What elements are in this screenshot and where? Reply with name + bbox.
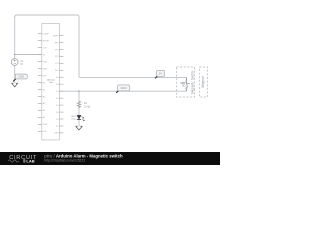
wire LED to ground — [78, 119, 80, 126]
wire V1 top vertical — [14, 16, 16, 59]
svg-text:GND: GND — [43, 61, 48, 63]
dashed enclosure Magnetic Switch — [177, 67, 195, 97]
LED LED1 — [71, 115, 84, 121]
watermark bar — [0, 152, 220, 165]
svg-text:LAB: LAB — [26, 159, 34, 164]
node junction at V1/U1 5V — [14, 54, 16, 56]
switch SW1 — [180, 77, 189, 91]
net flag GND at V1 — [13, 74, 27, 81]
wire V1 to IC pin — [15, 54, 42, 56]
svg-text:RESET: RESET — [43, 40, 50, 42]
svg-text:Magnet: Magnet — [201, 76, 205, 87]
voltage source V1 — [11, 59, 24, 66]
U1 right pins — [59, 36, 63, 133]
svg-text:IOREF: IOREF — [43, 33, 50, 35]
wire branch to R1 — [78, 91, 80, 101]
resistor R1 — [77, 101, 80, 108]
wire top rail horizontal — [15, 15, 79, 17]
svg-text:GND: GND — [43, 68, 48, 70]
U1 right pin labels — [53, 34, 59, 134]
svg-text:5V: 5V — [159, 72, 162, 76]
svg-text:http://circuitlab.com/c/z5223: http://circuitlab.com/c/z5223 — [44, 159, 85, 163]
net flag 5V on top rail — [155, 70, 164, 78]
svg-text:NO: NO — [182, 86, 186, 88]
wire right vertical down to switch rail — [78, 16, 80, 77]
svg-text:piiru / Arduino Alarm - Magnet: piiru / Arduino Alarm - Magnetic switch — [44, 153, 123, 158]
U1 left pins — [38, 34, 42, 132]
op-amp U1 Arduino body — [42, 24, 60, 140]
dashed enclosure Magnet — [200, 67, 208, 97]
svg-text:Magnetic Switch: Magnetic Switch — [190, 71, 194, 94]
svg-text:white: white — [71, 118, 77, 121]
svg-text:10 kΩ: 10 kΩ — [84, 105, 91, 108]
svg-text:VIN: VIN — [43, 75, 47, 77]
svg-text:DIO2: DIO2 — [121, 86, 128, 90]
svg-text:GND: GND — [54, 133, 59, 135]
svg-text:5V: 5V — [20, 63, 23, 66]
svg-text:3.3V: 3.3V — [43, 47, 48, 49]
ground under V1 — [12, 83, 18, 87]
ground under LED — [76, 126, 83, 130]
net flag DIO2 on lower wire — [116, 85, 130, 93]
svg-text:SDA: SDA — [43, 123, 48, 126]
node junction at R1 branch — [78, 90, 80, 92]
svg-text:AREF: AREF — [53, 34, 59, 37]
CircuitLab logo — [8, 155, 37, 163]
svg-text:GND: GND — [54, 42, 59, 44]
wire R1 to LED — [78, 108, 80, 115]
wire V1 bottom to ground — [14, 66, 16, 84]
wire IC pin to switch bottom — [60, 90, 186, 92]
svg-text:GND: GND — [18, 75, 24, 79]
wire horizontal to switch top — [79, 76, 186, 77]
U1 left pin labels — [43, 33, 50, 133]
U1 name label — [47, 79, 55, 85]
